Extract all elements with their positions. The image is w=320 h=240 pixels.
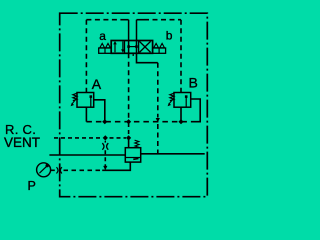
svg-text:A: A <box>92 76 102 92</box>
svg-text:B: B <box>189 74 198 90</box>
svg-text:VENT: VENT <box>4 135 40 150</box>
svg-text:P: P <box>28 179 36 193</box>
svg-text:b: b <box>166 29 173 43</box>
svg-text:a: a <box>99 29 106 43</box>
